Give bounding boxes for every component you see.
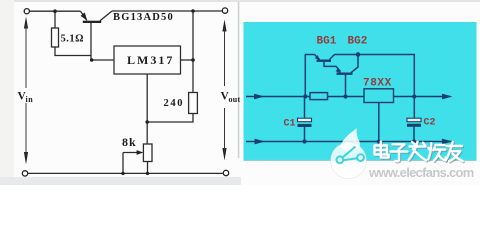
capacitor C2 bottom lead [413, 127, 415, 142]
junction dot resistor top [53, 9, 57, 13]
wire left riser input to top [305, 55, 314, 97]
transistor BG2 emitter arrowhead [336, 68, 342, 73]
logo node ring right [357, 154, 364, 161]
logo text shadow [376, 143, 464, 163]
Vout arrow down head [222, 148, 226, 161]
regulator 78XX ground pin [378, 103, 380, 142]
resistor 5.1 ohm leads [55, 11, 91, 55]
glyph shao [428, 143, 445, 161]
potentiometer wiper arrowhead [137, 150, 144, 155]
junction dot wiper bottom [121, 172, 124, 175]
transistor BG1 emitter arrowhead [315, 55, 321, 60]
transistor BG2 base bar [337, 73, 353, 75]
junction dot C1 ground [302, 139, 306, 143]
svg-text:C1: C1 [284, 118, 296, 129]
svg-text:C2: C2 [424, 117, 436, 128]
wire input rail [246, 96, 310, 98]
wire rail resistor to 78XX [328, 96, 365, 98]
wire LM317 adj [146, 74, 148, 144]
glyph you [446, 142, 463, 161]
page background [0, 0, 480, 185]
junction dot pot bottom [146, 172, 149, 175]
wire top rail left [30, 10, 81, 12]
transistor BG13AD50 base wire [90, 23, 92, 60]
resistor 240 bottom lead [147, 114, 193, 123]
bottom gray band of left scan [0, 177, 241, 185]
logo text: hand-drawn strokes for 电子发烧友 [375, 142, 464, 163]
cyan panel [244, 22, 477, 161]
logo circle [331, 143, 367, 179]
input rail arrowhead [254, 94, 265, 100]
glyph dian [375, 142, 389, 158]
logo flame [340, 128, 360, 151]
transistor BG1 base bar [317, 60, 332, 62]
logo link line between nodes [343, 158, 357, 160]
junction dot C2 ground [412, 139, 416, 143]
potentiometer 8k wiper [123, 152, 140, 154]
resistor R body [310, 93, 328, 100]
output rail arrowhead [442, 94, 453, 100]
wire output vertical [192, 11, 194, 93]
svg-text:LM317: LM317 [127, 53, 174, 67]
top edge light line [0, 0, 480, 2]
wire LM317 output [181, 59, 194, 61]
resistor 240 body [189, 93, 198, 114]
logo node ring left [336, 156, 343, 163]
svg-text:240: 240 [164, 98, 185, 109]
svg-text:8k: 8k [122, 135, 137, 149]
wire LM317 input [91, 59, 114, 61]
transistor BG13AD50 base bar [83, 21, 101, 23]
junction dot collectors top [356, 52, 361, 57]
wire bottom rail [28, 172, 224, 174]
capacitor C1 top plate [298, 118, 312, 122]
terminal output bottom circle [223, 170, 228, 175]
svg-text:78XX: 78XX [363, 78, 392, 90]
svg-text:BG1: BG1 [317, 36, 337, 48]
capacitor C1 bottom lead [304, 127, 306, 142]
capacitor C2 bottom plate [407, 124, 421, 127]
wire BG1 base to BG2 emitter [324, 62, 341, 72]
divider gray line between images [238, 2, 240, 158]
transistor BG2 collector [351, 55, 358, 73]
junction dot BG2 base node [343, 94, 347, 98]
junction dot adj node [145, 120, 149, 124]
left paper edge strip [0, 0, 14, 177]
junction dot output node [412, 94, 416, 98]
wire top rail to output [335, 55, 415, 97]
junction dot output top [191, 9, 195, 13]
capacitor C2 top plate [407, 118, 421, 122]
potentiometer wiper ground wire [122, 153, 124, 174]
svg-text:BG2: BG2 [348, 36, 368, 48]
transistor BG13AD50 emitter arrowhead [81, 12, 88, 20]
transistor BG1 collector [330, 55, 335, 60]
Vin arrow down head [24, 152, 28, 165]
LM317 box [114, 46, 181, 74]
svg-text:out: out [229, 95, 241, 104]
terminal input top circle [24, 9, 29, 14]
Vout measure line [224, 28, 226, 152]
Vin measure line [25, 24, 27, 156]
wire top rail right [112, 10, 222, 12]
potentiometer 8k body [143, 144, 152, 162]
resistor 5.1 ohm body [52, 28, 59, 47]
svg-text:5.1Ω: 5.1Ω [61, 34, 85, 45]
glyph zi [391, 144, 408, 161]
wire bottom rail [246, 141, 452, 143]
logo text elecfans url [369, 165, 474, 180]
junction dot input node [303, 94, 307, 98]
capacitor C2 top lead [413, 97, 415, 119]
transistor BG13AD50 collector [100, 11, 112, 21]
junction dot 78XX ground [377, 139, 381, 143]
svg-text:BG13AD50: BG13AD50 [113, 12, 174, 23]
logo inner link art [336, 147, 364, 164]
bottom rail left arrowhead [255, 139, 266, 145]
transistor BG13AD50 emitter [81, 11, 87, 20]
junction dot LM317 input [90, 58, 94, 62]
bottom rail right arrowhead [442, 139, 453, 145]
Vout arrow up head [222, 20, 226, 32]
capacitor C1 top lead [304, 97, 306, 119]
transistor BG1 emitter [315, 55, 320, 60]
capacitor C1 bottom plate [298, 124, 312, 127]
regulator 78XX box [364, 89, 394, 103]
potentiometer 8k bottom lead [147, 162, 149, 174]
logo link line to flame [343, 147, 356, 158]
Vin arrow up head [24, 17, 28, 29]
cyan panel bottom edge [244, 160, 477, 161]
junction dot LM317 output [191, 58, 195, 62]
glyph fa [409, 142, 426, 161]
wire output rail [394, 96, 451, 98]
terminal output top circle [222, 8, 227, 13]
transistor BG2 base wire [345, 75, 347, 97]
terminal input bottom circle [22, 171, 27, 176]
svg-text:in: in [26, 95, 34, 104]
